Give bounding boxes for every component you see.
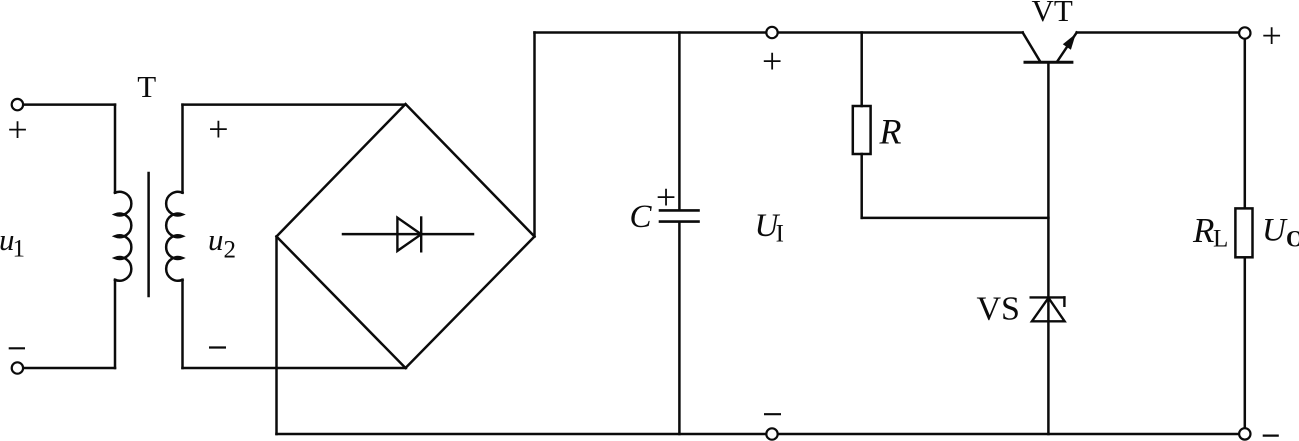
bridge diode triangle <box>397 218 421 251</box>
zener diode VS cathode bar <box>1031 296 1065 298</box>
capacitor C top plate <box>660 209 699 212</box>
polarity: UI minus <box>764 413 781 415</box>
zener diode VS cathode wing <box>1063 297 1065 305</box>
svg-text:VT: VT <box>1032 0 1073 28</box>
svg-text:+: + <box>208 109 228 149</box>
wire: base vertical down through zener to bottom rail <box>1047 64 1050 434</box>
terminal: UI minus <box>766 428 777 439</box>
wire: secondary vertical lower <box>181 280 184 368</box>
wire: primary vertical upper <box>114 105 117 193</box>
wire: resistor R top lead <box>860 33 863 107</box>
svg-text:C: C <box>630 199 653 235</box>
svg-text:R: R <box>1192 211 1214 250</box>
bridge diode cathode bar <box>420 218 422 252</box>
load resistor RL body <box>1235 208 1252 257</box>
terminal: input bottom <box>12 362 23 373</box>
wire: primary bottom lead <box>23 367 115 370</box>
svg-text:R: R <box>879 112 902 152</box>
wire: bridge right vertex up to top rail <box>533 33 536 237</box>
svg-text:1: 1 <box>13 236 26 263</box>
wire: bottom rail <box>277 433 1245 436</box>
transistor VT collector diagonal <box>1023 33 1040 61</box>
wire: resistor R bottom lead <box>860 154 863 218</box>
bridge diode lead line <box>343 233 473 236</box>
svg-text:+: + <box>656 177 676 217</box>
terminal: UI plus <box>766 27 777 38</box>
wire: top rail left section <box>535 31 1023 34</box>
transistor VT base bar <box>1025 61 1072 64</box>
svg-text:T: T <box>137 69 156 104</box>
wire: capacitor top lead <box>678 33 681 210</box>
svg-text:+: + <box>7 110 27 150</box>
svg-text:O: O <box>1286 226 1299 251</box>
wire: bridge left vertex down to bottom rail <box>275 237 278 435</box>
terminal: output plus <box>1239 27 1250 38</box>
transformer secondary winding <box>166 192 182 281</box>
wire: secondary vertical upper <box>181 105 184 193</box>
wire: primary top lead <box>23 103 115 106</box>
transistor VT emitter arrow <box>1063 34 1076 50</box>
svg-text:L: L <box>1213 225 1228 252</box>
wire: capacitor bottom lead <box>678 223 681 434</box>
transformer core <box>147 173 150 296</box>
terminal: output minus <box>1239 428 1250 439</box>
wire: R to transistor base vertical <box>862 217 1049 220</box>
transformer primary winding <box>115 192 131 281</box>
wire: top rail right section <box>1077 31 1239 34</box>
terminal: input top <box>12 99 23 110</box>
svg-text:2: 2 <box>224 237 237 264</box>
svg-text:u: u <box>208 222 224 257</box>
zener diode VS triangle <box>1032 298 1065 322</box>
wire: load branch vertical <box>1244 33 1247 434</box>
polarity: output minus <box>1263 435 1279 437</box>
bridge rectifier diamond <box>277 104 535 368</box>
resistor R body <box>853 106 871 154</box>
svg-text:VS: VS <box>977 291 1020 328</box>
svg-text:+: + <box>1261 15 1281 55</box>
polarity: primary minus <box>9 347 25 349</box>
transistor VT emitter diagonal <box>1058 33 1077 61</box>
wire: secondary bottom to bridge bottom vertex <box>183 367 407 370</box>
svg-text:U: U <box>1262 213 1288 249</box>
wire: secondary top to bridge top vertex <box>183 103 406 106</box>
svg-text:+: + <box>762 41 782 81</box>
capacitor C bottom plate <box>660 220 699 223</box>
wire: primary vertical lower <box>114 280 117 368</box>
svg-text:I: I <box>776 221 784 248</box>
polarity: secondary minus <box>209 346 226 348</box>
